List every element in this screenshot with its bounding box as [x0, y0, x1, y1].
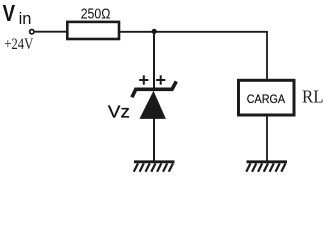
- svg-text:+24V: +24V: [4, 36, 33, 53]
- svg-text:CARGA: CARGA: [247, 92, 285, 106]
- svg-text:250Ω: 250Ω: [81, 5, 111, 22]
- svg-text:Vz: Vz: [108, 101, 130, 121]
- svg-text:RL: RL: [302, 87, 324, 107]
- svg-text:in: in: [19, 9, 32, 28]
- svg-text:V: V: [3, 0, 16, 26]
